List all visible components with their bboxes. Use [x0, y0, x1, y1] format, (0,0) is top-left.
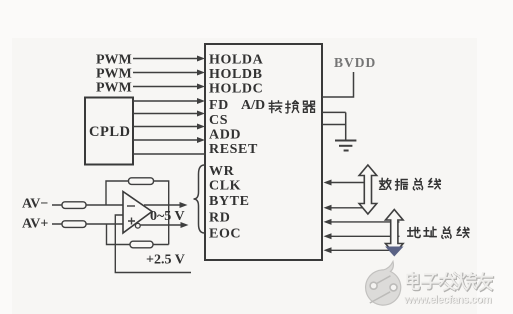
- address bus arrow navy tip: [385, 247, 403, 257]
- svg-text:ADD: ADD: [209, 128, 241, 143]
- address bus wire 2: [324, 233, 400, 239]
- wire op-amp output to ADC: [144, 202, 188, 208]
- data bus wire 1: [324, 180, 369, 186]
- wire AV- input: [52, 204, 123, 206]
- wire CPLD to RESET: [133, 137, 205, 143]
- svg-text:www.elecfans.com: www.elecfans.com: [403, 294, 491, 306]
- data bus double arrow: [359, 165, 377, 214]
- op-amp U3: [123, 192, 152, 234]
- wire CPLD to CS: [133, 111, 205, 117]
- svg-text:PWM: PWM: [96, 53, 132, 68]
- svg-text:BYTE: BYTE: [209, 194, 250, 209]
- label address bus (地址总线): [408, 227, 469, 238]
- bottom loop wire with resistor R4: [107, 224, 169, 248]
- op-amp plus mark: [128, 218, 135, 225]
- ground symbol: [335, 141, 356, 151]
- svg-text:CS: CS: [209, 113, 228, 128]
- resistor R2 on AV+: [62, 221, 86, 228]
- address bus wire 3: [324, 247, 400, 253]
- svg-text:A/D: A/D: [241, 98, 265, 113]
- wire ground pin 1: [322, 111, 346, 113]
- node circle on op-amp edge: [135, 223, 140, 228]
- svg-text:FD: FD: [209, 98, 229, 113]
- svg-text:HOLDB: HOLDB: [209, 67, 263, 82]
- wire CPLD to ADD: [133, 124, 205, 130]
- wire PWM1 to HOLDA: [133, 56, 205, 62]
- svg-text:RD: RD: [209, 211, 230, 226]
- wire BVDD to ADC: [322, 72, 354, 97]
- svg-text:+2.5 V: +2.5 V: [146, 253, 185, 268]
- wire AV+ path to ADC: [141, 222, 189, 228]
- wire ground pin 2: [322, 124, 346, 126]
- resistor R1 on AV-: [62, 202, 86, 209]
- address bus double arrow: [386, 210, 404, 255]
- wire CPLD lower: [133, 153, 206, 155]
- wire CPLD to FD: [133, 98, 205, 104]
- label data bus (数据总线): [380, 178, 441, 190]
- op-amp minus mark: [127, 205, 135, 207]
- data bus wire 2: [324, 205, 369, 211]
- svg-text:CLK: CLK: [209, 179, 241, 194]
- +2.5V supply wire: [115, 215, 191, 273]
- svg-text:0~5 V: 0~5 V: [150, 209, 185, 224]
- wire to ground: [345, 112, 347, 140]
- svg-text:WR: WR: [209, 164, 235, 179]
- watermark text 电子发烧友: [408, 274, 493, 291]
- svg-text:CPLD: CPLD: [89, 124, 130, 140]
- wire AV+ input: [52, 223, 124, 225]
- watermark logo circle: [366, 262, 401, 306]
- address bus wire 1: [324, 219, 400, 225]
- svg-text:PWM: PWM: [96, 67, 132, 82]
- svg-text:HOLDC: HOLDC: [209, 82, 263, 97]
- svg-text:AV−: AV−: [22, 197, 48, 212]
- brace for WR..EOC: [194, 165, 205, 233]
- svg-text:PWM: PWM: [96, 81, 132, 96]
- CPLD box U2: [85, 98, 133, 165]
- wire PWM3 to HOLDC: [133, 84, 205, 90]
- svg-text:EOC: EOC: [209, 227, 241, 242]
- feedback top wire with resistor R3: [106, 178, 169, 245]
- A/D converter box U1: [205, 44, 322, 260]
- svg-text:RESET: RESET: [209, 142, 258, 157]
- wire PWM2 to HOLDB: [133, 70, 205, 76]
- svg-text:AV+: AV+: [22, 217, 48, 232]
- svg-text:HOLDA: HOLDA: [209, 53, 264, 68]
- svg-text:BVDD: BVDD: [334, 55, 376, 70]
